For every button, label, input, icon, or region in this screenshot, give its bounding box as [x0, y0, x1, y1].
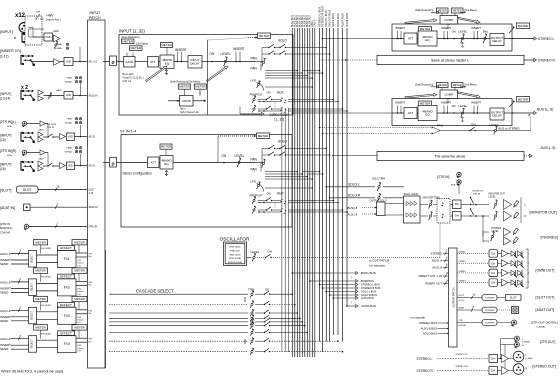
svg-text:for cascade: for cascade [370, 264, 386, 268]
svg-text:SIGNAL: SIGNAL [65, 122, 73, 125]
svg-text:(Gain Reduction): (Gain Reduction) [415, 84, 433, 87]
svg-text:2TR L/R: 2TR L/R [89, 227, 98, 229]
svg-text:DELAY: DELAY [492, 39, 502, 43]
svg-text:METER: METER [438, 83, 447, 87]
svg-text:METER: METER [161, 145, 172, 149]
svg-text:SLOT: SLOT [23, 188, 32, 192]
svg-text:SEND: SEND [0, 262, 9, 266]
svg-text:COMP: COMP [182, 99, 191, 103]
svg-text:OMNI3: OMNI3 [459, 271, 467, 273]
svg-text:DA: DA [455, 214, 459, 218]
svg-text:ST IN 1-4: ST IN 1-4 [120, 130, 136, 134]
svg-text:OMNI1: OMNI1 [459, 252, 467, 254]
svg-text:BAL: BAL [483, 30, 489, 34]
svg-text:METER: METER [74, 269, 85, 273]
svg-text:ON: ON [210, 52, 215, 56]
svg-text:ATT: ATT [151, 160, 157, 164]
svg-text:(Out Meter): (Out Meter) [136, 43, 148, 46]
svg-text:R: R [526, 368, 528, 371]
svg-text:[ADAT OUT]: [ADAT OUT] [536, 308, 555, 312]
svg-text:CH 15/16: CH 15/16 [47, 124, 57, 126]
svg-text:SINE 1kHz: SINE 1kHz [230, 250, 240, 252]
svg-text:[INPUT]: [INPUT] [0, 92, 11, 96]
svg-text:METER: METER [35, 297, 46, 301]
svg-text:PAD: PAD [46, 35, 51, 39]
svg-text:ON: ON [471, 122, 476, 126]
svg-text:STEREO: STEREO [430, 252, 442, 256]
svg-text:MONITOR OUT: MONITOR OUT [489, 194, 506, 196]
svg-text:INSERT: INSERT [441, 26, 451, 30]
svg-text:(Out Meter): (Out Meter) [465, 84, 477, 87]
svg-text:STEREO L: STEREO L [417, 357, 433, 361]
svg-text:SIGNAL: SIGNAL [54, 47, 63, 50]
svg-text:ON: ON [265, 288, 269, 292]
svg-text:[STEREO OUT]: [STEREO OUT] [533, 365, 556, 369]
svg-text:[2TR OUT]: [2TR OUT] [540, 340, 556, 344]
svg-text:INSERT: INSERT [395, 101, 405, 105]
svg-text:Return: Return [78, 319, 84, 322]
svg-text:INPUT: INPUT [90, 11, 102, 15]
svg-text:GATE: GATE [125, 60, 133, 64]
svg-text:L/R: L/R [78, 294, 82, 296]
svg-text:PAN: PAN [251, 57, 258, 61]
svg-text:AUX1-8: AUX1-8 [0, 252, 11, 256]
svg-text:METER: METER [518, 97, 529, 101]
svg-text:[INPUT]: [INPUT] [0, 163, 11, 167]
svg-text:SIGNAL: SIGNAL [65, 151, 73, 154]
svg-text:Self-in Stereo Link: Self-in Stereo Link [180, 111, 200, 114]
svg-text:ON: ON [268, 250, 272, 254]
svg-text:INSERT: INSERT [175, 48, 187, 52]
svg-text:SOLO L: SOLO L [348, 183, 360, 187]
svg-text:ON: ON [452, 30, 456, 34]
svg-text:BUS1-8: BUS1-8 [348, 206, 358, 210]
svg-text:FX0 SEND: FX0 SEND [41, 305, 51, 307]
svg-text:AUX7 BUS: AUX7 BUS [340, 13, 344, 27]
svg-text:Rtn: Rtn [89, 340, 92, 343]
svg-text:FX2: FX2 [64, 285, 70, 289]
svg-text:BUS to STEREO: BUS to STEREO [499, 126, 521, 130]
svg-text:1(..16): 1(..16) [459, 300, 465, 302]
svg-text:MONITOR: MONITOR [473, 191, 484, 193]
svg-text:SEND: SEND [0, 319, 9, 323]
svg-text:CASCADE SELECT: CASCADE SELECT [136, 289, 174, 294]
svg-text:METER: METER [259, 34, 270, 38]
svg-text:INSERT OUT: INSERT OUT [425, 282, 442, 286]
svg-text:INSERT: INSERT [471, 101, 481, 105]
svg-text:DA: DA [491, 271, 495, 275]
svg-text:AUX1-8: AUX1-8 [432, 266, 442, 270]
svg-text:SLOT: SLOT [510, 296, 517, 300]
svg-text:A/D: A/D [66, 93, 71, 97]
svg-text:METER: METER [161, 43, 172, 47]
svg-text:[INPUT]: [INPUT] [0, 134, 11, 138]
svg-text:x12: x12 [15, 13, 26, 19]
svg-text:(15): (15) [0, 138, 6, 142]
svg-text:SOLO LOGIC: SOLO LOGIC [404, 193, 419, 196]
svg-text:STEREO R BUS: STEREO R BUS [361, 286, 381, 290]
svg-text:PEAK: PEAK [67, 118, 73, 121]
svg-text:AUX: AUX [277, 192, 284, 196]
svg-text:⋮: ⋮ [350, 276, 354, 280]
svg-text:INSERT: INSERT [471, 26, 481, 30]
svg-text:CONVER: CONVER [485, 323, 495, 325]
svg-text:INPUT 1(..32): INPUT 1(..32) [119, 29, 145, 34]
svg-text:METER: METER [438, 8, 447, 12]
svg-text:INSERT: INSERT [233, 47, 245, 51]
svg-text:AUX1-8: AUX1-8 [0, 280, 11, 284]
svg-text:FX0 SEND: FX0 SEND [41, 277, 51, 279]
svg-text:Rtn: Rtn [89, 312, 92, 315]
svg-text:EQ: EQ [425, 38, 430, 42]
svg-text:PEAK: PEAK [67, 77, 73, 80]
svg-text:(1-12): (1-12) [0, 55, 9, 59]
svg-text:⋮: ⋮ [350, 301, 354, 305]
svg-text:LEVEL: LEVEL [251, 250, 260, 254]
svg-text:(Gain Reduction): (Gain Reduction) [415, 9, 433, 12]
svg-text:RCA: RCA [451, 184, 456, 187]
svg-text:KLR 1-6: KLR 1-6 [123, 81, 132, 83]
svg-text:STEREO R: STEREO R [538, 59, 555, 63]
svg-text:ADAT1-8: ADAT1-8 [89, 206, 99, 209]
svg-text:DA: DA [491, 356, 495, 360]
svg-text:FX1: FX1 [64, 257, 70, 261]
svg-text:OFF: OFF [36, 12, 41, 14]
svg-text:SOLO L BUS: SOLO L BUS [361, 290, 377, 294]
svg-text:(16): (16) [0, 167, 6, 171]
svg-text:Group (1-12,13-36.. ): Group (1-12,13-36.. ) [123, 77, 145, 80]
svg-text:FX0 SEND: FX0 SEND [41, 248, 51, 250]
svg-text:AD13-14: AD13-14 [89, 95, 99, 98]
svg-text:SEND: SEND [0, 290, 9, 294]
svg-text:[ADAT IN]: [ADAT IN] [0, 206, 15, 210]
svg-text:DIRECT OUT 1-32: DIRECT OUT 1-32 [419, 274, 443, 278]
svg-text:SOLO BUS: SOLO BUS [423, 332, 437, 336]
svg-text:LEVEL: LEVEL [459, 30, 468, 34]
svg-text:CAS R: CAS R [314, 19, 317, 27]
svg-text:LEVEL: LEVEL [459, 104, 468, 108]
svg-text:AUX1-8: AUX1-8 [0, 309, 11, 313]
svg-text:DA: DA [491, 281, 495, 285]
svg-text:ADAT: ADAT [459, 307, 465, 310]
svg-text:[PHONES]: [PHONES] [541, 236, 558, 240]
svg-text:PAN: PAN [437, 123, 443, 127]
svg-text:FX0 SEND: FX0 SEND [41, 333, 51, 335]
svg-text:EFFECT: EFFECT [60, 331, 72, 335]
svg-text:Rtn: Rtn [89, 284, 92, 287]
svg-text:STEREO L: STEREO L [538, 37, 554, 41]
svg-text:LEVEL: LEVEL [492, 231, 500, 233]
svg-text:ON: ON [452, 104, 456, 108]
svg-text:[INSERT I/O]: [INSERT I/O] [0, 49, 21, 53]
svg-text:METER: METER [179, 85, 190, 89]
svg-text:B: B [14, 36, 16, 40]
svg-text:[2TR IN](L): [2TR IN](L) [0, 120, 16, 124]
svg-text:METER: METER [35, 269, 46, 273]
svg-text:[MONITOR OUT]: [MONITOR OUT] [530, 211, 558, 215]
svg-text:ON: ON [267, 192, 271, 196]
svg-text:OSCILLATOR: OSCILLATOR [220, 236, 250, 242]
svg-text:GAIN: GAIN [38, 158, 44, 161]
svg-text:EQ: EQ [165, 61, 170, 65]
svg-text:STEREO L/S: STEREO L/S [456, 354, 468, 356]
svg-text:PHONES: PHONES [492, 228, 502, 230]
svg-text:1/TR IN: 1/TR IN [473, 193, 481, 195]
svg-text:Same as stereo master L: Same as stereo master L [431, 58, 469, 62]
svg-text:Rg in 12ch: Rg in 12ch [123, 74, 135, 76]
svg-text:DA: DA [455, 202, 459, 206]
svg-text:METER: METER [35, 325, 46, 329]
svg-text:RCA: RCA [7, 154, 12, 157]
svg-text:(Gain Reduction)(Out Meter): (Gain Reduction)(Out Meter) [170, 81, 200, 84]
svg-text:METER: METER [258, 134, 269, 138]
svg-text:CONVER: CONVER [485, 310, 495, 312]
svg-text:SINE 100Hz: SINE 100Hz [229, 247, 240, 249]
svg-text:STEREO L BUS: STEREO L BUS [361, 283, 380, 287]
svg-text:AUX2 BUS: AUX2 BUS [336, 13, 340, 27]
svg-text:SLOT: SLOT [89, 190, 96, 192]
svg-text:METER: METER [35, 240, 46, 244]
svg-text:COAXIAL: COAXIAL [0, 232, 11, 235]
svg-text:SELECT: SELECT [32, 310, 34, 320]
svg-text:[SLOT OUT]: [SLOT OUT] [536, 296, 555, 300]
svg-text:A/D: A/D [68, 164, 73, 168]
svg-text:Return: Return [78, 347, 84, 350]
svg-text:OMNI2: OMNI2 [459, 261, 467, 263]
svg-text:SOLO: SOLO [278, 39, 287, 43]
svg-text:[2TR IN]: [2TR IN] [438, 175, 450, 179]
svg-text:DIGITAL]: DIGITAL] [0, 226, 12, 230]
svg-text:EQ: EQ [425, 113, 430, 117]
svg-text:ON: ON [222, 154, 227, 158]
svg-text:PAN: PAN [251, 168, 258, 172]
svg-text:PEAK: PEAK [56, 43, 62, 46]
svg-text:[INPUT]: [INPUT] [0, 30, 13, 34]
svg-text:AD 1-12: AD 1-12 [89, 61, 98, 64]
svg-text:EFFECT: EFFECT [60, 275, 72, 279]
svg-text:Rg in: Rg in [180, 109, 186, 111]
svg-text:AUX8 BUS: AUX8 BUS [345, 13, 349, 27]
svg-text:DELAY: DELAY [492, 114, 502, 118]
svg-text:A/D: A/D [68, 135, 73, 139]
svg-text:COAXIAL: COAXIAL [536, 326, 546, 329]
svg-text:BURST NOISE: BURST NOISE [228, 262, 243, 264]
svg-text:Return: Return [78, 262, 84, 265]
svg-text:AD 15: AD 15 [89, 136, 96, 139]
svg-text:EFFECT: EFFECT [60, 303, 72, 307]
svg-text:AUX1 BUS: AUX1 BUS [361, 296, 374, 300]
svg-text:DIRECT OUT: DIRECT OUT [270, 113, 289, 117]
svg-text:SLOT: SLOT [459, 295, 465, 297]
svg-text:Return: Return [78, 290, 84, 293]
svg-text:PATCH: PATCH [89, 16, 101, 20]
svg-text:Rtn: Rtn [89, 255, 92, 258]
svg-text:to OUT PATCH: to OUT PATCH [369, 259, 389, 263]
svg-text:R: R [525, 214, 527, 218]
svg-text:AUX1 BUS: AUX1 BUS [331, 13, 335, 27]
svg-text:(each 4ch ): (each 4ch ) [46, 18, 61, 22]
svg-text:AUX8 BUS: AUX8 BUS [361, 304, 376, 308]
svg-text:INSERT: INSERT [441, 101, 451, 105]
svg-text:for cascade: for cascade [411, 316, 426, 320]
svg-text:SEND: SEND [0, 347, 9, 351]
svg-text:1-16: 1-16 [89, 193, 94, 195]
svg-text:LEVEL: LEVEL [221, 52, 231, 56]
svg-text:PINK NOISE: PINK NOISE [229, 258, 242, 260]
svg-text:SIGNAL: SIGNAL [65, 81, 73, 84]
svg-text:SOLO R: SOLO R [348, 194, 361, 198]
svg-text:When 96 kHz FX3, 4 cannot be u: When 96 kHz FX3, 4 cannot be used. [1, 370, 64, 374]
svg-text:METER: METER [74, 297, 85, 301]
svg-text:PRE/POST: PRE/POST [250, 194, 264, 198]
svg-text:DA: DA [491, 368, 495, 372]
svg-text:BUS 1(.. 8): BUS 1(.. 8) [537, 108, 553, 112]
svg-text:1(.. 32): 1(.. 32) [274, 117, 284, 121]
svg-text:ATT: ATT [408, 37, 414, 41]
svg-text:GAIN: GAIN [56, 89, 62, 92]
svg-text:ATT: ATT [408, 111, 414, 115]
svg-text:LEVEL: LEVEL [489, 196, 497, 198]
svg-text:PEAK: PEAK [67, 147, 73, 150]
svg-text:METER: METER [131, 46, 142, 50]
svg-text:(13-14): (13-14) [0, 97, 10, 101]
svg-text:INSERT: INSERT [395, 26, 405, 30]
svg-text:LFE: LFE [251, 79, 257, 83]
svg-text:[SLOT]: [SLOT] [0, 189, 11, 193]
svg-text:OUTPUT PATCH: OUTPUT PATCH [452, 288, 456, 308]
svg-text:COMP: COMP [444, 92, 453, 96]
svg-text:DELAY: DELAY [190, 61, 200, 65]
svg-text:METER: METER [195, 85, 206, 89]
svg-text:STEREO BUS: STEREO BUS [419, 321, 437, 325]
svg-text:A/D: A/D [66, 59, 71, 63]
svg-text:PAN: PAN [251, 158, 258, 162]
svg-text:SELECT: SELECT [32, 254, 34, 264]
svg-text:[OMNI OUT]: [OMNI OUT] [536, 269, 555, 273]
svg-text:METER: METER [518, 24, 529, 28]
svg-text:FX4: FX4 [64, 342, 70, 346]
svg-text:AUX1-8: AUX1-8 [348, 213, 358, 217]
svg-text:OMNI4: OMNI4 [459, 281, 467, 283]
svg-text:DA: DA [491, 261, 495, 265]
svg-text:L/R: L/R [78, 322, 82, 324]
svg-text:SELECT: SELECT [32, 339, 34, 349]
svg-text:AD 16: AD 16 [89, 165, 96, 168]
svg-text:PRE/POST: PRE/POST [250, 93, 264, 97]
svg-text:(Out Meter): (Out Meter) [465, 9, 477, 12]
svg-text:METER: METER [123, 39, 134, 43]
svg-text:STEREO R/S: STEREO R/S [456, 366, 469, 368]
svg-text:SELECT: SELECT [32, 282, 34, 292]
svg-text:ON: ON [267, 91, 271, 95]
svg-text:(+4dBs): (+4dBs) [526, 358, 533, 360]
svg-text:METER: METER [74, 325, 85, 329]
svg-text:STEREO R: STEREO R [417, 369, 434, 373]
svg-text:METER: METER [420, 27, 431, 31]
svg-text:2TR: 2TR [459, 320, 464, 322]
svg-text:DIGITAL: DIGITAL [459, 324, 468, 327]
svg-text:METER: METER [453, 83, 462, 87]
svg-text:SOLO: SOLO [278, 140, 287, 144]
svg-text:AUX1-8 BUS: AUX1-8 BUS [421, 327, 437, 331]
svg-text:L/R: L/R [78, 265, 82, 267]
svg-text:EFFECT: EFFECT [60, 246, 72, 250]
svg-text:L/R: L/R [78, 351, 82, 353]
svg-text:RCA: RCA [7, 125, 12, 128]
svg-text:FX3: FX3 [64, 314, 70, 318]
svg-text:METER: METER [420, 102, 431, 106]
svg-text:METER: METER [74, 240, 85, 244]
svg-text:SINE 10kHz: SINE 10kHz [229, 254, 240, 256]
svg-text:LFE: LFE [251, 180, 257, 184]
svg-text:The same the above: The same the above [435, 155, 466, 159]
svg-text:CONVER: CONVER [485, 298, 495, 300]
svg-text:AUX1(.. 8): AUX1(.. 8) [541, 146, 556, 150]
svg-text:BUS8 BUS: BUS8 BUS [361, 279, 374, 283]
svg-text:GAIN: GAIN [53, 30, 59, 33]
svg-text:[2TR IN](R): [2TR IN](R) [0, 149, 16, 153]
svg-text:AUX1-8: AUX1-8 [0, 337, 11, 341]
svg-text:ATT: ATT [150, 60, 156, 64]
svg-text:GAIN: GAIN [38, 129, 44, 132]
svg-text:(-10dBV): (-10dBV) [522, 341, 530, 343]
svg-text:COMP: COMP [444, 18, 453, 22]
svg-text:Stereo Configuration: Stereo Configuration [123, 172, 152, 176]
svg-text:BUS1-8: BUS1-8 [432, 259, 442, 263]
svg-text:[2TR OUT DIGITAL]: [2TR OUT DIGITAL] [531, 321, 558, 325]
svg-text:DA: DA [491, 252, 495, 256]
svg-text:BUS1 BUS: BUS1 BUS [361, 271, 376, 275]
svg-text:PAN: PAN [251, 67, 258, 71]
svg-text:EQ: EQ [164, 162, 169, 166]
svg-text:METER: METER [453, 8, 462, 12]
svg-text:SOLO TRIM: SOLO TRIM [372, 178, 385, 181]
svg-text:AUX: AUX [277, 91, 284, 95]
